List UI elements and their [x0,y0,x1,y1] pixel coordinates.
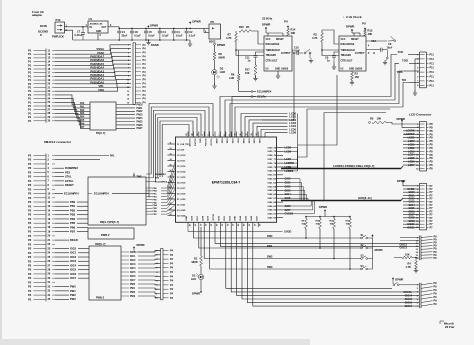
svg-text:IO26: IO26 [192,215,194,221]
svg-text:P2: P2 [28,187,32,191]
svg-text:GND: GND [242,139,244,144]
power flag DPWR LCD [397,117,420,128]
svg-text:DPWR: DPWR [262,22,270,26]
svg-text:R15: R15 [239,25,244,29]
svg-text:VCC: VCC [341,39,346,41]
svg-text:29: 29 [188,224,190,226]
svg-text:P11: P11 [430,58,435,61]
svg-text:P1: P1 [28,89,32,93]
svg-text:IO40: IO40 [253,139,256,145]
timer U2 LM555 [339,36,366,71]
resistor R4 4.7K [406,261,418,270]
svg-text:GIO14: GIO14 [405,294,413,297]
svg-text:P2: P2 [28,289,32,293]
connector P8 LCD [416,122,433,171]
svg-text:CTRLVOLT: CTRLVOLT [341,61,354,63]
svg-text:GIO17: GIO17 [405,305,413,308]
LED D2 [212,60,226,78]
svg-text:SW3: SW3 [267,266,273,269]
svg-text:PW3: PW3 [70,297,76,301]
svg-text:IO53_81: IO53_81 [268,175,277,177]
svg-text:PA6: PA6 [80,122,85,125]
resistor R17 15K [245,62,258,81]
svg-text:IO54_80: IO54_80 [268,170,277,173]
svg-text:PAD2: PAD2 [137,110,144,113]
power flag DPWR D1 [192,280,202,296]
svg-text:P2: P2 [28,179,32,183]
svg-text:11: 11 [170,142,172,144]
svg-text:GND: GND [186,216,188,221]
svg-text:GIO6: GIO6 [285,205,292,208]
svg-text:ECLKMPE4: ECLKMPE4 [64,191,79,195]
svg-text:IN: IN [90,27,93,29]
svg-text:23_IO22: 23_IO22 [177,210,186,212]
svg-text:D2: D2 [220,66,224,70]
svg-text:SW0: SW0 [267,235,273,238]
svg-text:40K: 40K [291,31,296,35]
svg-text:P11: P11 [430,76,435,79]
GIO net labels [403,188,419,229]
svg-text:LCDE: LCDE [285,166,292,169]
svg-text:DPWR: DPWR [319,205,327,209]
svg-text:P1: P1 [28,78,32,82]
svg-text:PE3: PE3 [65,170,71,174]
svg-text:8: 8 [224,134,226,135]
buffer U5A label [368,39,376,55]
svg-text:32: 32 [204,224,206,226]
svg-text:35: 35 [220,224,222,226]
svg-text:14_IO11: 14_IO11 [177,159,186,162]
svg-text:P2: P2 [28,230,32,234]
svg-text:IO60_74: IO60_74 [268,146,277,149]
svg-text:R7: R7 [228,32,232,36]
pushbutton S6 [388,36,395,41]
svg-text:GIO4: GIO4 [285,193,292,196]
svg-text:P1: P1 [28,71,32,75]
CPLD left pins [168,142,190,217]
svg-text:PW3: PW3 [130,296,136,298]
svg-text:R13: R13 [368,29,373,33]
ground at rail end [188,40,192,46]
svg-text:OUTPUT: OUTPUT [281,53,291,55]
svg-text:P11: P11 [430,80,435,83]
svg-text:U1: U1 [89,17,93,21]
svg-text:P1: P1 [28,86,32,90]
long vertical TDI route [298,109,308,157]
ground R4 [414,268,418,273]
svg-text:BKGD: BKGD [70,238,78,242]
svg-text:OUT: OUT [102,27,107,29]
wire R2 to U2 [321,30,339,56]
svg-text:P1: P1 [28,93,32,97]
svg-text:IO48_86: IO48_86 [268,193,277,196]
wire riser bundle to CPLD top [149,104,213,198]
P2 mid nets [55,166,78,187]
svg-text:LCDRW: LCDRW [285,162,295,165]
svg-text:DPWR: DPWR [397,179,405,183]
svg-text:GVDD2: GVDD2 [285,213,294,216]
svg-text:P1: P1 [28,67,32,71]
svg-text:ECLKMPE4: ECLKMPE4 [257,90,272,94]
svg-text:PA2: PA2 [80,109,85,112]
svg-text:P1: P1 [28,119,32,123]
net labels GCLRn GIO14-17 [403,291,412,308]
net GCLRn mid [232,95,266,138]
svg-text:IO32: IO32 [229,215,231,221]
svg-text:LCD0: LCD0 [285,146,292,149]
pushbuttons S1-S4 [361,234,373,270]
svg-text:0.1uF: 0.1uF [148,34,155,37]
svg-text:D: D [40,34,42,37]
resistor pack PWB-2 [88,228,134,239]
wire P9a row1 [400,237,419,239]
power flag DPWR 2 [189,20,201,30]
resistor R5 10K [369,117,419,124]
svg-text:IO47: IO47 [255,215,258,221]
svg-text:PWRJCK: PWRJCK [52,35,64,39]
power flag DPWR [147,24,158,29]
svg-text:10uF: 10uF [387,46,393,49]
wire 32kHz output down [262,52,295,120]
output jack J1 [304,49,313,63]
svg-text:P1: P1 [28,56,32,60]
svg-text:RUNMPE2: RUNMPE2 [65,166,78,170]
svg-text:ECLKMPE4: ECLKMPE4 [94,191,109,195]
svg-text:PB2: PB2 [70,208,76,212]
wire P9a row2 [400,239,419,241]
svg-text:P2: P2 [28,166,32,170]
svg-text:9: 9 [229,134,231,135]
svg-text:P2: P2 [28,280,32,284]
svg-text:LED: LED [220,70,225,74]
svg-text:LCD6: LCD6 [285,150,292,153]
svg-text:39: 39 [242,224,244,226]
svg-text:OUTPUT: OUTPUT [355,53,365,55]
svg-text:PB3: PB3 [70,213,76,217]
svg-text:adapter: adapter [32,13,43,17]
svg-text:IO30: IO30 [219,215,221,221]
capacitor C7 0.47uF [75,26,86,40]
svg-text:IO56_78: IO56_78 [268,163,277,165]
power rail top DPWR [108,27,204,29]
svg-text:4.7K: 4.7K [312,36,318,40]
svg-text:P1: P1 [28,63,32,67]
connector P10 PWRJCK [38,18,68,39]
svg-text:GIO5: GIO5 [285,197,292,200]
svg-text:OE1: OE1 [199,139,201,144]
svg-text:32 KHz: 32 KHz [262,16,273,20]
svg-text:21_IO20: 21_IO20 [177,199,186,201]
connector P9 upper [416,236,438,261]
svg-text:P2: P2 [28,200,32,204]
svg-text:IO52_82: IO52_82 [268,179,277,181]
svg-text:GVDD: GVDD [284,231,291,234]
svg-text:10K: 10K [316,223,320,225]
svg-text:PAD7: PAD7 [137,127,144,130]
svg-text:P1: P1 [28,115,32,119]
label 32 KHz [262,16,273,20]
LCD wire bundle from CPLD top [241,114,288,138]
net TDI [235,78,419,137]
svg-text:IO29: IO29 [208,215,210,221]
connector P7 GIO [416,183,433,230]
net ECLKMPE4 mid [239,90,272,97]
svg-text:EPM7128SLC84-7: EPM7128SLC84-7 [212,181,241,185]
svg-text:P2: P2 [28,247,32,251]
svg-text:PWB-2: PWB-2 [96,296,105,299]
resistor R15 2K [239,25,251,32]
svg-text:GND: GND [349,69,354,71]
svg-text:AS3482C-E5: AS3482C-E5 [90,22,104,25]
svg-text:GIO11: GIO11 [407,226,415,229]
svg-text:P2: P2 [28,285,32,289]
capacitor C3 0.1uF [172,28,183,41]
svg-text:THRESHOLD: THRESHOLD [341,50,356,52]
net BKGD [55,238,78,242]
svg-text:VCCIO: VCCIO [210,139,212,146]
svg-text:P2: P2 [28,154,32,158]
svg-text:P2: P2 [28,183,32,187]
capacitor C6 0.1uF [130,28,141,41]
svg-text:RUNMPE2: RUNMPE2 [155,174,166,176]
svg-text:LED: LED [191,278,196,281]
svg-text:P1: P1 [28,60,32,64]
CPLD bottom pins [186,214,261,227]
svg-text:GIO2: GIO2 [285,185,292,188]
svg-text:R6: R6 [219,52,223,56]
svg-text:TDI: TDI [402,78,407,82]
svg-text:P2: P2 [28,293,32,297]
svg-text:IO57_77: IO57_77 [268,159,277,161]
P1 wires to resistor pack PA [55,95,90,129]
svg-text:24_IO24: 24_IO24 [177,214,186,217]
svg-text:IOC1: IOC1 [70,251,77,255]
svg-text:DPWR: DPWR [397,117,405,121]
svg-text:PU: PU [284,20,288,24]
svg-text:TRIGGER: TRIGGER [341,55,352,57]
svg-text:IO33: IO33 [220,139,222,145]
svg-text:2K: 2K [246,25,249,29]
power flag DPWR P5 [133,243,161,252]
ground U3 [276,71,280,78]
svg-text:42: 42 [258,224,261,226]
svg-text:PA3: PA3 [80,112,85,115]
svg-text:19_IO17: 19_IO17 [177,188,186,190]
svg-text:IOC2: IOC2 [70,255,77,259]
svg-text:P11: P11 [430,71,435,74]
svg-text:P1: P1 [28,82,32,86]
wire 2Hz output down [298,52,375,145]
svg-text:RESET: RESET [65,183,74,187]
wire P10 to U1 [65,27,89,40]
ground U5A [383,59,388,65]
switch nets SW0-SW3 [193,227,360,269]
svg-text:DPWR: DPWR [346,24,354,28]
svg-text:VCC: VCC [266,39,271,41]
svg-text:GCLRn: GCLRn [204,139,206,147]
svg-text:PW2: PW2 [130,292,136,294]
svg-text:PW1: PW1 [70,289,76,293]
svg-text:VRH: VRH [98,88,104,92]
box1 top labels [146,174,168,184]
label 68HC12 connector [44,140,72,144]
svg-text:16_IO14: 16_IO14 [177,170,186,173]
svg-text:IOC1: IOC1 [130,256,136,258]
svg-text:PA0: PA0 [80,102,85,105]
capacitor C10 0.01uF [292,47,303,55]
svg-text:P1: P1 [28,52,32,56]
resistor 10K horizontal [394,254,419,261]
svg-text:P11: P11 [430,54,435,57]
pullup resistors R9-R12 10K [302,205,352,270]
ground LCD pin1 [413,123,419,125]
svg-text:PW2: PW2 [70,293,76,297]
svg-text:P2: P2 [28,242,32,246]
svg-text:PB0: PB0 [70,200,76,204]
svg-text:PB6: PB6 [70,225,76,229]
svg-text:GIO15: GIO15 [405,298,413,301]
net GVDD [188,227,291,234]
svg-text:LCD7: LCD7 [408,164,415,167]
resistor pack PA[0..7] [90,102,116,135]
P2 IOC nets [55,246,89,280]
svg-text:GND: GND [235,216,237,221]
power flag DPWR U3 [262,22,283,36]
pullup PU flag 2 [362,22,366,31]
svg-text:0.01uF: 0.01uF [292,50,300,53]
svg-text:PW1: PW1 [130,288,136,290]
svg-text:IO37: IO37 [237,139,239,145]
net ECLKMPE4 from P2 [55,191,149,195]
svg-text:GCLRn: GCLRn [403,291,412,294]
wire R15 to U3 [235,31,264,56]
svg-text:PAD5: PAD5 [137,120,144,123]
svg-text:33uF: 33uF [121,34,127,37]
svg-text:13_IO10: 13_IO10 [177,155,186,157]
svg-text:IO44: IO44 [239,215,242,221]
svg-text:68HC12 connector: 68HC12 connector [44,140,72,144]
svg-text:GIO3: GIO3 [285,189,292,192]
svg-text:IO58_76: IO58_76 [268,155,277,157]
connector P9 lower [417,282,437,308]
svg-text:RESET: RESET [276,39,284,41]
svg-text:BZ02: BZ02 [209,39,216,43]
svg-text:P2: P2 [28,162,32,166]
label 2 Hz Clock [343,15,362,19]
svg-text:P2: P2 [28,263,32,267]
connector P11 JTAG [417,52,434,88]
svg-text:IO51_83: IO51_83 [268,182,277,184]
svg-text:GND: GND [215,139,217,144]
svg-text:RESET: RESET [351,39,359,41]
svg-text:EXTAL: EXTAL [65,179,74,183]
svg-text:PA4: PA4 [80,116,85,119]
svg-text:TRIGGER: TRIGGER [266,55,277,57]
svg-text:P11: P11 [430,67,435,70]
svg-text:P2: P2 [28,268,32,272]
right pin nets to bus1 [283,146,298,172]
svg-text:LM555: LM555 [355,69,363,71]
svg-text:IO34: IO34 [226,139,229,145]
P2 PB0-PB7 nets [55,200,88,234]
resistor pack PB[0..7]/P2[0..7] [88,177,146,225]
svg-text:15_IO12: 15_IO12 [177,166,186,168]
svg-text:P2: P2 [28,196,32,200]
svg-text:37: 37 [231,224,233,226]
svg-text:IO36: IO36 [231,139,233,145]
svg-text:12_IO9: 12_IO9 [177,149,185,151]
capacitor C1 33uF [117,28,128,41]
svg-text:LCD7: LCD7 [285,158,292,161]
label LCD Connector [409,112,432,116]
connector P5 [155,249,173,300]
svg-text:IO27: IO27 [197,215,199,221]
svg-text:IO42_92: IO42_92 [268,217,277,220]
svg-text:PA7: PA7 [80,126,85,129]
svg-text:XTAL: XTAL [65,175,72,179]
svg-text:DPWR: DPWR [375,248,383,252]
svg-text:P1: P1 [28,104,32,108]
LCD net labels [403,130,419,167]
ground DGND [146,39,159,47]
svg-text:0.1uF: 0.1uF [176,34,183,37]
svg-text:DPWR: DPWR [137,243,145,247]
svg-text:P1: P1 [28,74,32,78]
bus collector vertical [297,114,299,169]
resistor R1 960R [192,227,203,266]
svg-text:IO47_87: IO47_87 [268,197,277,200]
connector P4 [127,43,146,105]
svg-text:DISCHARGE: DISCHARGE [266,43,280,46]
svg-text:DCGND: DCGND [38,29,48,33]
svg-text:IO44_90: IO44_90 [268,209,277,212]
svg-text:DPWR: DPWR [150,24,158,28]
svg-text:7: 7 [218,134,220,135]
svg-text:GIO1: GIO1 [285,182,292,185]
svg-text:P2: P2 [28,251,32,255]
power flag DPWR P9b [392,278,404,284]
svg-text:LCD Connector: LCD Connector [409,112,432,116]
connector P1 [28,49,55,123]
bus LCDRS LCDRW LCDE LCD[0..7] [281,164,403,168]
svg-text:PA5: PA5 [80,119,85,122]
resistor R13 40K [364,29,373,36]
svg-text:P2: P2 [28,276,32,280]
svg-text:IOC4: IOC4 [130,267,136,270]
svg-text:P1: P1 [28,49,32,53]
svg-text:DISCHARGE: DISCHARGE [341,43,355,46]
svg-text:20_IO18: 20_IO18 [177,193,186,195]
svg-text:P11: P11 [430,84,435,87]
svg-text:IOC[0..7]: IOC[0..7] [95,243,106,246]
timer U3 LM555 [264,36,292,71]
capacitor C5 0.1uF [144,28,155,41]
svg-text:IO41: IO41 [258,139,261,145]
svg-text:P2: P2 [28,225,32,229]
svg-text:IOC7: IOC7 [70,276,77,280]
ground rail bottom [73,39,190,41]
TMS stub [133,173,142,179]
svg-text:P2: P2 [28,259,32,263]
svg-text:P2: P2 [28,175,32,179]
long vertical GIO route [307,109,390,201]
svg-text:VCCIO: VCCIO [213,214,215,221]
svg-text:PA1: PA1 [80,105,85,108]
svg-text:IO46: IO46 [250,215,253,221]
svg-text:12: 12 [170,148,172,150]
P1 net wires group1 [55,45,131,92]
svg-text:38: 38 [237,224,239,226]
